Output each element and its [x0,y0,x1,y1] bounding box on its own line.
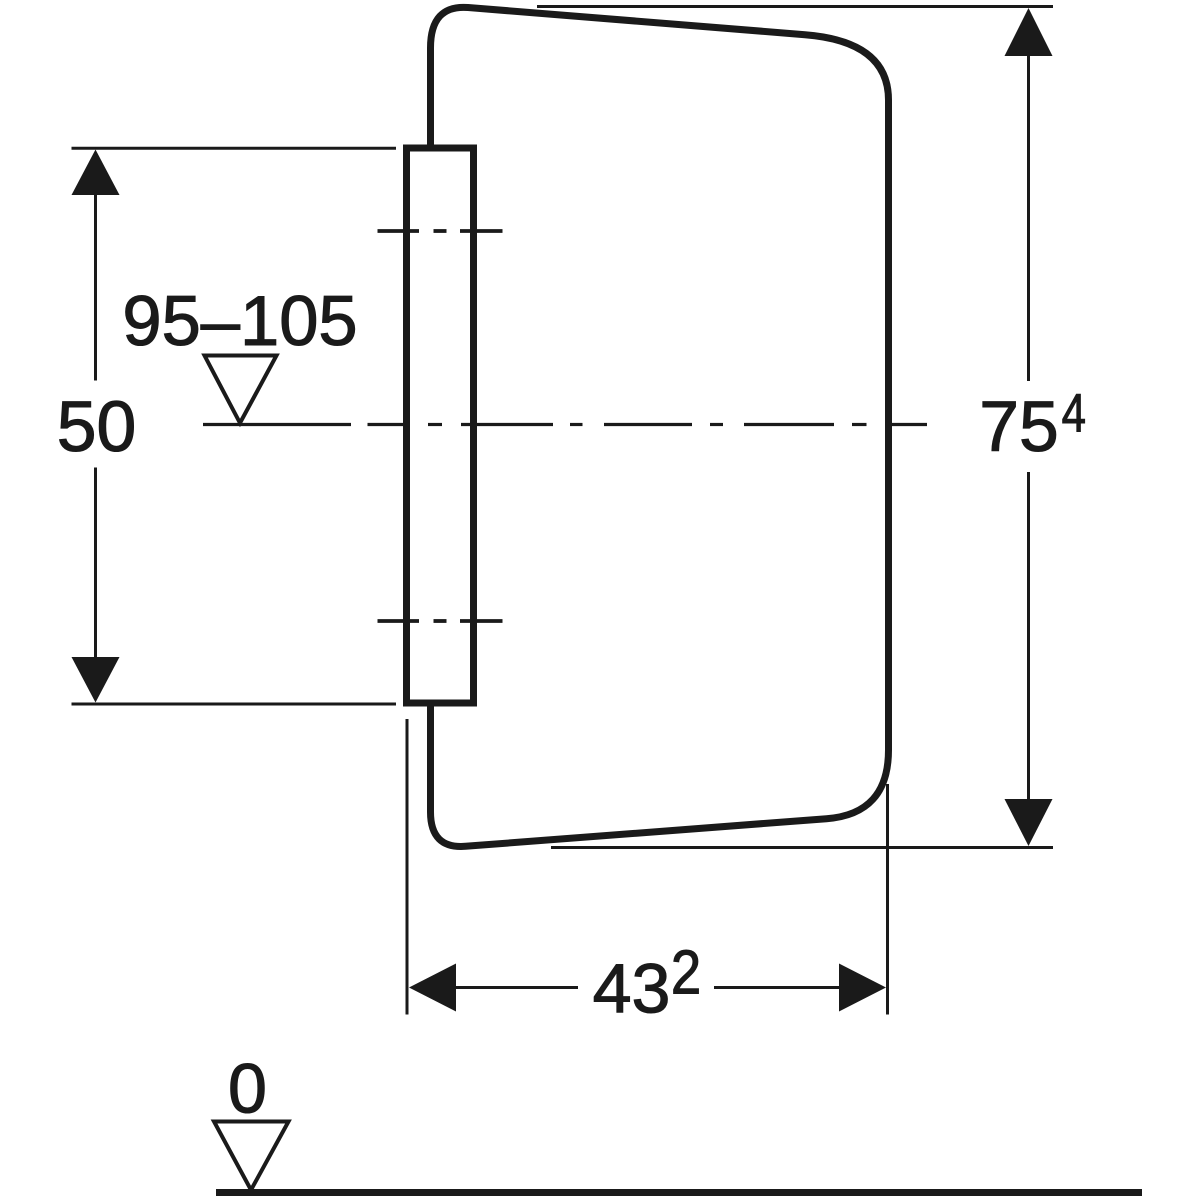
svg-text:75: 75 [979,387,1059,467]
body outline of appliance (thick) [431,7,889,846]
floor datum triangle (open) [214,1122,289,1191]
svg-text:0: 0 [228,1050,267,1128]
level datum triangle (open) [205,356,277,424]
svg-text:2: 2 [671,938,701,1007]
horizontal center line (dash-dot) [203,423,927,426]
dimension 75 : arrowheads [1005,8,1053,56]
svg-text:95–105: 95–105 [122,281,357,360]
svg-text:43: 43 [593,950,671,1028]
dimension 50 : dimension line [94,193,97,659]
lower hole axis dash-dot marker [378,619,503,623]
dimension 43 : arrowheads [409,964,456,1012]
dimension 43 : dimension line [455,986,841,989]
svg-text:4: 4 [1062,384,1086,443]
dimension 43 : extension lines [407,719,888,1015]
dimension 50 : arrowheads [72,150,120,196]
svg-text:50: 50 [57,387,137,467]
dimension 50 : extension lines [72,148,397,704]
mounting rail (white filled rect) [407,148,474,703]
floor line (thick) [216,1189,1142,1196]
dimension 75 : dimension line [1027,54,1030,801]
upper hole axis dash-dot marker [378,229,503,233]
dimension 75 : extension lines [537,7,1053,848]
